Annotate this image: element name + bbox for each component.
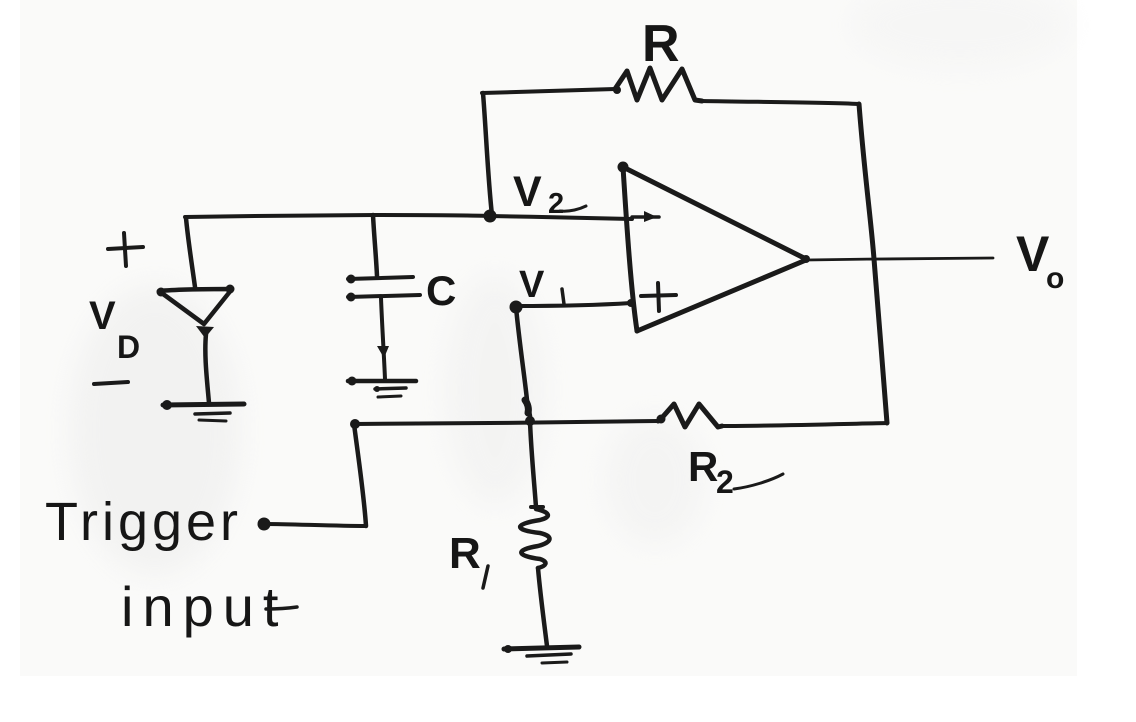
wire: R1 down to ground [538,568,547,646]
label R1 [449,529,488,588]
resistor R zigzag [613,68,702,101]
node: V1 junction dot [510,301,523,314]
svg-text:o: o [1046,262,1064,295]
node: trigger input terminal dot [258,518,271,531]
ground under diode [162,400,244,421]
capacitor C top wire [373,215,377,276]
label R [642,15,680,73]
label R2 [688,443,783,500]
wire: bottom horizontal of R2 loop (right part) [722,423,887,426]
op-amp plus sign at non-inverting input [641,283,676,311]
label Trigger [45,492,242,552]
resistor R1 vertical squiggle [520,509,549,568]
wire: trigger input vertical riser [354,424,366,526]
minus polarity mark of VD [94,382,128,384]
wire: V2 horizontal (diode/cap top rail into inverting input) [185,215,632,219]
wire: top left horizontal to resistor R [482,89,615,93]
svg-text:V: V [513,168,542,216]
svg-text:R: R [449,529,481,578]
svg-text:input: input [121,575,287,638]
svg-text:D: D [117,329,140,365]
wire: V1 horizontal into non-inverting input [516,299,635,307]
diode VD top wire [186,218,195,287]
label C [426,267,456,314]
label input [121,575,297,638]
diode VD triangle [157,285,235,339]
op-amp U1 triangle [618,162,811,332]
node: V2 junction dot [484,210,497,223]
plus polarity mark of VD [108,233,143,266]
svg-text:C: C [426,267,456,314]
svg-text:V: V [89,294,116,338]
wire: V1 vertical down to R1 [516,307,543,507]
svg-text:2: 2 [548,188,564,220]
ground under R1 [504,645,579,663]
wire: right vertical of feedback loop [859,104,887,423]
svg-text:V: V [519,264,545,306]
svg-text:Trigger: Trigger [45,492,242,552]
node: junction dot where V1 line crosses bottom wire [525,416,535,426]
svg-text:V: V [1016,226,1050,282]
label V2 [513,168,586,220]
wire: bottom horizontal from R2 to trigger corner [354,421,658,424]
wire: top loop left vertical (V2 node up to feedback R) [483,93,492,215]
label V1 [519,264,564,306]
node: junction dot at riser top on bottom wire [350,419,360,429]
label Vo [1016,226,1064,295]
label VD [89,294,140,365]
resistor R2 zigzag [657,404,723,427]
inverting input arrow inside op-amp [632,211,659,222]
svg-text:R: R [688,443,718,490]
wire: op-amp output to Vo [806,258,993,260]
ground under capacitor [348,377,417,398]
svg-text:R: R [642,15,680,73]
wire: capacitor bottom to ground with arrow [377,298,389,379]
capacitor C plates [347,275,421,302]
wire: diode down to ground [205,334,209,403]
wire: trigger input horizontal lead [266,524,366,526]
svg-text:2: 2 [716,464,734,500]
wire: top right horizontal from R to right corner [702,101,859,104]
